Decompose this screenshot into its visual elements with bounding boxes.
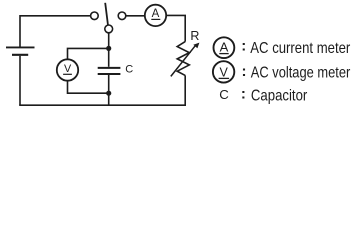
node A (junction) (106, 46, 111, 51)
wire left (battery bottom lead) (19, 56, 21, 105)
svg-text::: : (241, 38, 246, 55)
voltmeter V (circuit) (57, 59, 78, 80)
legend row 2 text: AC voltage meter (242, 63, 351, 82)
legend row 1 text: AC current meter (241, 38, 350, 57)
svg-text:R: R (190, 29, 199, 43)
svg-text:Capacitor: Capacitor (251, 87, 307, 104)
legend voltmeter symbol (213, 61, 234, 82)
svg-text:C: C (219, 87, 229, 102)
wire bottom bus (19, 104, 186, 106)
legend row 3 text: Capacitor (241, 86, 307, 105)
svg-text::: : (241, 86, 246, 103)
wire ammeter to resistor (166, 15, 185, 41)
wire node A to voltmeter (68, 48, 109, 59)
switch S1 (91, 3, 126, 33)
wire resistor to bottom bus (184, 75, 186, 105)
resistor R (variable) (171, 42, 200, 77)
capacitor C1 (98, 68, 121, 74)
legend ammeter symbol (214, 37, 235, 58)
wire node B to bottom bus (108, 93, 110, 105)
wire switch pole to node A (108, 33, 110, 49)
wire node A to capacitor (108, 48, 110, 66)
wire left (battery top lead to switch) (20, 16, 91, 47)
svg-text:A: A (152, 8, 160, 20)
svg-text::: : (242, 63, 247, 80)
svg-text:V: V (64, 63, 72, 75)
wire capacitor to node B (108, 75, 110, 93)
node B (junction) (106, 91, 111, 96)
svg-text:V: V (220, 65, 229, 79)
svg-text:A: A (220, 40, 229, 55)
wire switch to ammeter (126, 15, 145, 17)
battery B1 (6, 47, 35, 54)
svg-text:AC voltage meter: AC voltage meter (251, 64, 350, 81)
svg-text:AC current meter: AC current meter (250, 40, 350, 57)
ammeter A (circuit) (145, 5, 166, 26)
wire voltmeter to node B (68, 81, 109, 94)
svg-text:C: C (125, 63, 133, 75)
